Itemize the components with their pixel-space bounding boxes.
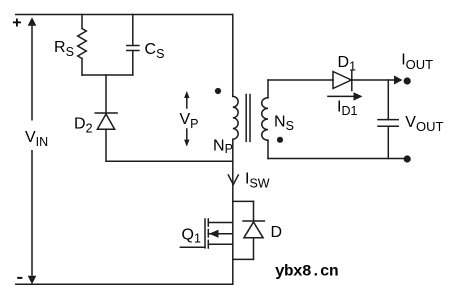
- node: output positive terminal: [404, 77, 411, 84]
- capacitor CS: [127, 15, 139, 76]
- wire: primary bottom to MOSFET drain: [232, 139, 234, 284]
- wire: bottom rail: [16, 283, 233, 285]
- svg-text:+: +: [12, 15, 21, 32]
- IOUT current arrow: [394, 76, 403, 85]
- transistor Q1: [180, 219, 232, 248]
- svg-text:D: D: [271, 224, 283, 241]
- svg-text:ISW: ISW: [245, 171, 270, 191]
- svg-text:VOUT: VOUT: [405, 114, 443, 134]
- secondary polarity dot: [277, 137, 283, 143]
- wire: secondary top rail to D1 anode: [268, 79, 333, 81]
- svg-text:Q1: Q1: [182, 227, 201, 246]
- wire: snubber bottom junction: [82, 74, 133, 76]
- label NP: [212, 138, 233, 157]
- capacitor COUT: [378, 120, 398, 159]
- resistor RS: [78, 15, 87, 76]
- wire: main vertical (primary top lead): [232, 15, 234, 97]
- wire: D2 anode to primary bottom: [106, 160, 233, 162]
- diode D1: [333, 71, 352, 91]
- svg-text:ID1: ID1: [337, 98, 357, 118]
- ISW arrow: [228, 175, 238, 185]
- body diode D: [233, 201, 264, 259]
- VP indicator arrows: [184, 91, 189, 147]
- svg-text:CS: CS: [145, 41, 165, 61]
- svg-text:VP: VP: [180, 111, 199, 131]
- ID1 current arrow: [328, 92, 363, 100]
- svg-text:RS: RS: [54, 39, 74, 59]
- wire: secondary top lead: [267, 80, 269, 98]
- wire: top rail from + terminal to primary: [16, 14, 233, 16]
- svg-text:IOUT: IOUT: [401, 51, 433, 72]
- VIN measurement arrow: [28, 17, 37, 284]
- minus terminal label: [17, 277, 22, 279]
- wire: D1 cathode to output node: [352, 79, 395, 81]
- VIN label: [24, 121, 48, 151]
- wire: junction to D2 cathode: [105, 75, 107, 113]
- transformer core: [246, 95, 250, 142]
- transformer secondary winding NS: [262, 98, 268, 140]
- transformer primary winding NP: [233, 96, 238, 139]
- wire: secondary bottom rail: [268, 158, 405, 160]
- svg-text:D1: D1: [338, 54, 357, 74]
- svg-text:NS: NS: [274, 113, 294, 133]
- node: output negative terminal: [404, 155, 411, 162]
- wire: output node down to capacitor: [387, 80, 389, 120]
- svg-text:ybx8.cn: ybx8.cn: [275, 263, 338, 281]
- svg-text:D2: D2: [74, 116, 93, 136]
- diode D2: [95, 113, 117, 161]
- wire: secondary bottom lead: [267, 140, 269, 158]
- primary polarity dot: [215, 88, 221, 94]
